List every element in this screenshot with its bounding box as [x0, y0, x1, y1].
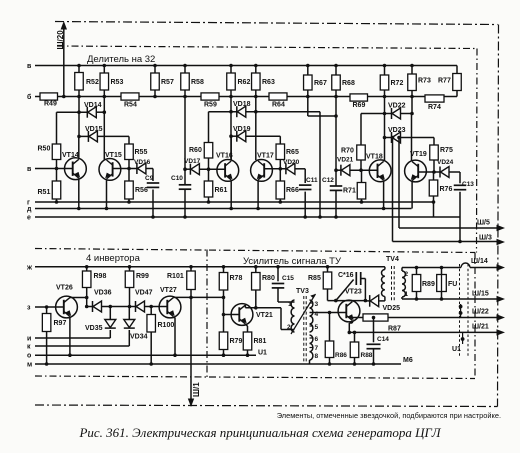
svg-text:VD16: VD16 [134, 159, 151, 166]
svg-text:R72: R72 [391, 80, 404, 87]
capacitor C13 [449, 171, 460, 173]
svg-text:Ш/5: Ш/5 [477, 220, 490, 227]
transistor VT14 [65, 158, 87, 180]
svg-text:о: о [27, 353, 31, 360]
bus line g [35, 201, 434, 203]
diode VD17 [189, 164, 191, 175]
capacitor C16 diagonal wire [336, 280, 354, 301]
svg-text:к: к [27, 344, 31, 351]
svg-text:VT26: VT26 [56, 285, 73, 292]
bus line z [35, 306, 64, 308]
svg-text:ж: ж [26, 264, 33, 271]
svg-text:R73: R73 [418, 78, 431, 85]
TV3 pin8 wire [309, 360, 311, 364]
svg-text:VT27: VT27 [160, 287, 177, 294]
wire R62 column [230, 97, 232, 161]
svg-text:VD47: VD47 [135, 290, 153, 297]
VT15 emitter wire [106, 180, 108, 208]
svg-text:R66: R66 [286, 187, 299, 194]
svg-text:TV4: TV4 [386, 256, 399, 263]
svg-text:VT19: VT19 [410, 151, 427, 158]
wire R55 to VT15 base [128, 160, 130, 169]
resistor R77 [456, 66, 458, 74]
diode VD18 row wire [209, 111, 237, 113]
svg-text:R58: R58 [191, 79, 204, 86]
sh20 riser wire [63, 29, 65, 97]
svg-text:в: в [27, 63, 32, 70]
svg-text:4 инвертора: 4 инвертора [86, 253, 141, 264]
svg-text:R67: R67 [314, 80, 327, 87]
long wire to e-bus [319, 112, 321, 217]
svg-text:R62: R62 [238, 79, 251, 86]
svg-text:в: в [27, 166, 32, 173]
svg-text:R88: R88 [361, 352, 373, 359]
collector node wire to TV3 [245, 307, 281, 309]
VT17 emitter wire [257, 181, 259, 208]
svg-text:7: 7 [315, 345, 319, 352]
svg-text:2: 2 [405, 271, 409, 278]
resistor R76 [433, 172, 435, 180]
svg-text:8: 8 [315, 353, 319, 360]
wire R70 to base row [360, 160, 362, 170]
svg-text:R52: R52 [86, 79, 99, 86]
svg-text:R85: R85 [308, 275, 321, 282]
line Sh/15 [402, 298, 497, 300]
svg-text:VD18: VD18 [233, 101, 251, 108]
TV3 tuning arrow [291, 294, 316, 334]
resistor R53 [103, 66, 105, 74]
capacitor C10 [179, 184, 192, 186]
svg-text:VD19: VD19 [233, 126, 251, 133]
svg-text:R101: R101 [167, 273, 184, 280]
transistor VT21 [231, 304, 253, 326]
resistor R100 [150, 307, 152, 315]
resistor R68 [335, 66, 337, 76]
TV3 pin numbers [287, 301, 319, 360]
svg-text:VD20: VD20 [283, 159, 300, 166]
svg-text:VT16: VT16 [216, 153, 233, 160]
diode VD19 row wire [231, 135, 237, 137]
wire R50 to base row [56, 160, 58, 169]
diode VD22 [391, 108, 393, 119]
svg-text:R100: R100 [158, 322, 175, 329]
svg-text:Ш/20: Ш/20 [56, 30, 65, 50]
arrow Sh/5 [497, 225, 506, 231]
svg-text:д: д [27, 206, 32, 213]
transistor VT19 [405, 160, 427, 182]
svg-text:R49: R49 [44, 101, 57, 108]
C15 to TV3 pin1 wire [278, 301, 295, 303]
wire VD47 to VT27 base [145, 306, 168, 308]
resistor R66 [279, 169, 281, 181]
bus line k [35, 345, 129, 347]
svg-text:R68: R68 [342, 80, 355, 87]
VT21 emitter wire [245, 324, 247, 326]
svg-text:R89: R89 [422, 281, 435, 288]
resistor R55 [125, 144, 134, 160]
svg-text:R97: R97 [54, 320, 67, 327]
transistor VT26 [56, 296, 78, 318]
svg-text:Рис. 361. Электрическая принци: Рис. 361. Электрическая принципиальная с… [78, 425, 441, 440]
diode VD35 [109, 307, 111, 320]
diode VD22 row wire [361, 113, 392, 115]
VT21 base junction [222, 313, 226, 317]
wire R52 column [78, 97, 80, 137]
svg-text:U1: U1 [258, 350, 267, 357]
wire R53 column [103, 97, 105, 161]
wire R75 to base row [433, 160, 435, 172]
divider-by-32 dashed box [35, 46, 477, 253]
bus line v (top supply) [35, 65, 457, 67]
lower boxes dashed borders [35, 250, 475, 379]
wire collector row to amplifier [191, 296, 224, 298]
VT16 emitter wire [230, 181, 232, 208]
transistor VT27 [159, 296, 181, 318]
VT26 collector wire [69, 296, 71, 298]
svg-text:C12: C12 [322, 177, 334, 184]
svg-text:3: 3 [315, 301, 319, 308]
svg-text:R81: R81 [254, 338, 267, 345]
resistor R54 [121, 93, 139, 100]
bus line m [35, 363, 401, 365]
bus line b [35, 96, 40, 98]
svg-text:R69: R69 [353, 102, 366, 109]
VT23 collector stub [351, 300, 353, 303]
wire R65 to base row [279, 160, 281, 169]
wire to Sh/3 [434, 216, 461, 218]
diode VD18 [236, 106, 238, 117]
svg-text:VD25: VD25 [383, 305, 401, 312]
Sh/1 drop wire [190, 297, 192, 399]
svg-text:R54: R54 [124, 102, 137, 109]
transistor VT23 [338, 300, 360, 322]
capacitor C11 [295, 168, 305, 170]
svg-text:VT14: VT14 [62, 152, 79, 159]
svg-text:VT15: VT15 [105, 152, 122, 159]
resistor R56 [128, 169, 130, 182]
outer dash-dot frame [35, 22, 499, 407]
diode VD16 [136, 163, 138, 174]
svg-text:1: 1 [288, 301, 292, 308]
arrow Sh/1 [188, 399, 194, 408]
svg-text:C10: C10 [171, 175, 183, 182]
svg-text:Ш/15: Ш/15 [472, 291, 489, 298]
svg-text:R61: R61 [215, 187, 228, 194]
svg-text:R71: R71 [343, 188, 356, 195]
resistor R101 [190, 267, 192, 271]
VT19 emitter wire [411, 182, 413, 209]
capacitor C15 [277, 267, 279, 282]
resistor R49 [40, 93, 58, 100]
resistor R63 [255, 66, 257, 74]
resistor R87 [349, 317, 363, 319]
svg-text:VD14: VD14 [84, 102, 102, 109]
resistor R89 [416, 268, 418, 275]
svg-text:VT18: VT18 [366, 154, 383, 161]
svg-text:VD15: VD15 [85, 126, 103, 133]
wire R63 column [255, 97, 257, 161]
svg-text:2: 2 [287, 324, 291, 331]
resistor R99 [129, 267, 131, 271]
transformer TV3 [291, 296, 313, 362]
svg-text:R74: R74 [428, 104, 441, 111]
connector strip dashed lines [460, 264, 469, 357]
VT14 collector wire [78, 136, 80, 157]
bus line e [35, 216, 434, 218]
resistor R61 [208, 169, 210, 181]
svg-text:R63: R63 [262, 79, 275, 86]
bus line o [35, 354, 256, 356]
svg-text:и: и [27, 336, 31, 343]
svg-text:Элементы, отмеченные звездочко: Элементы, отмеченные звездочкой, подбира… [277, 411, 501, 420]
svg-text:C11: C11 [306, 177, 318, 184]
VT14 emitter wire [78, 180, 80, 209]
svg-text:е: е [27, 215, 31, 222]
diode VD34 [128, 307, 130, 320]
svg-text:Ш/22: Ш/22 [472, 309, 489, 316]
resistor R74 [425, 95, 444, 102]
diode VD17 row wire [185, 168, 190, 170]
arrow Sh/15 [497, 296, 506, 302]
svg-text:5: 5 [315, 324, 319, 331]
VT26 emitter wire [69, 318, 71, 356]
VT23 emitter wire [351, 321, 353, 323]
svg-text:TV3: TV3 [296, 288, 309, 295]
svg-text:м: м [27, 362, 32, 369]
svg-text:R76: R76 [440, 186, 453, 193]
line Sh/22 [388, 317, 497, 319]
svg-text:R70: R70 [341, 148, 354, 155]
svg-text:R64: R64 [272, 102, 285, 109]
resistor R72 [384, 66, 386, 76]
svg-text:R56: R56 [135, 187, 148, 194]
svg-text:Ш/1: Ш/1 [192, 382, 201, 397]
TV3 pin stubs [310, 302, 314, 304]
wire R58/C10 column [184, 97, 186, 185]
VT27 emitter wire [173, 317, 175, 319]
svg-text:R55: R55 [135, 149, 148, 156]
svg-text:з: з [27, 305, 31, 312]
svg-text:VD23: VD23 [388, 127, 406, 134]
transistor VT17 [251, 160, 273, 182]
diode VD36 [92, 301, 94, 312]
svg-text:M6: M6 [403, 357, 413, 364]
svg-text:VD34: VD34 [130, 334, 148, 341]
arrow Sh/20 [61, 21, 67, 30]
diode VD25 [365, 300, 369, 302]
svg-text:R53: R53 [111, 79, 124, 86]
resistor R79 [219, 332, 228, 350]
svg-text:Ш/3: Ш/3 [479, 235, 492, 242]
arrow Sh/3 [497, 239, 506, 245]
diode VD21 row wire [336, 169, 341, 171]
svg-text:C14: C14 [377, 336, 389, 343]
svg-text:1: 1 [405, 291, 409, 298]
resistor R80 [255, 267, 257, 273]
svg-text:6: 6 [315, 336, 319, 343]
svg-text:C13: C13 [462, 181, 474, 188]
svg-text:C9: C9 [145, 175, 154, 182]
line Sh/14 [402, 267, 461, 269]
diode VD23 [391, 132, 393, 143]
svg-text:Делитель на 32: Делитель на 32 [87, 54, 155, 65]
bus line v2 (base row left) [35, 168, 73, 170]
arrow Sh/22 [497, 314, 506, 320]
resistor R75 [430, 145, 439, 160]
diode VD15 [87, 131, 89, 142]
resistor R88 [354, 332, 356, 342]
transformer TV4 primary [384, 267, 386, 270]
VT16 collector wire [230, 136, 232, 159]
svg-text:R59: R59 [204, 102, 217, 109]
resistor R64 [269, 93, 287, 100]
svg-text:C15: C15 [282, 275, 294, 282]
fuse FU [441, 268, 443, 300]
bus line d [35, 208, 412, 210]
resistor R97 [46, 307, 48, 314]
VT21 base wire [224, 314, 240, 316]
capacitor C12 [330, 185, 343, 187]
left terminal letters [26, 63, 33, 369]
arrow Sh/14 [497, 264, 506, 270]
svg-text:VD24: VD24 [437, 159, 454, 166]
svg-text:FU: FU [448, 281, 457, 288]
diode VD20 [285, 163, 287, 174]
resistor R65 [276, 144, 285, 160]
resistor R69 [350, 94, 368, 101]
diode VD19 [236, 131, 238, 142]
connector contact U1 [462, 332, 464, 344]
svg-text:R99: R99 [136, 273, 149, 280]
transformer TV4 secondary [402, 271, 405, 297]
transistor VT15 [99, 159, 121, 181]
svg-text:R65: R65 [286, 149, 299, 156]
svg-text:Ш/21: Ш/21 [472, 324, 489, 331]
VT21 collector wire [244, 305, 246, 308]
resistor R67 [307, 66, 309, 76]
svg-text:R78: R78 [230, 275, 243, 282]
svg-text:VD35: VD35 [85, 325, 103, 332]
wire VD36 to VD47 [110, 306, 135, 308]
resistor R98 [86, 267, 88, 271]
wire to Sh/5 [398, 138, 400, 229]
diode VD24 [439, 167, 441, 178]
svg-text:R80: R80 [262, 275, 275, 282]
inter-stage wire [307, 97, 309, 117]
svg-text:VD21: VD21 [337, 157, 354, 164]
resistor R71 [361, 170, 363, 182]
svg-text:U1: U1 [452, 346, 461, 353]
diode VD47 [135, 301, 137, 312]
diode VD36 row wire [87, 306, 93, 308]
VT18 emitter wire [383, 182, 385, 209]
resistor R70 [357, 145, 366, 160]
svg-text:C*16: C*16 [338, 272, 354, 279]
svg-text:R51: R51 [38, 189, 51, 196]
resistor R50 [52, 144, 61, 160]
bus line zh (lower supply) [35, 266, 385, 268]
VT27 collector wire [173, 296, 191, 298]
resistor R86 [329, 313, 331, 342]
svg-text:R50: R50 [38, 146, 51, 153]
resistor R81 [243, 332, 252, 350]
diode VD21 [340, 165, 342, 176]
capacitor C14 [373, 318, 375, 343]
resistor R78 [223, 267, 225, 273]
svg-text:R79: R79 [230, 338, 243, 345]
svg-text:VD17: VD17 [184, 158, 201, 165]
svg-text:R75: R75 [440, 147, 453, 154]
diode VD14 [86, 107, 88, 118]
svg-text:б: б [27, 93, 32, 101]
svg-text:VD22: VD22 [388, 103, 406, 110]
capacitor C9 [146, 168, 153, 170]
wire R60 to base row [208, 158, 210, 169]
svg-text:R87: R87 [388, 326, 401, 333]
diode VD23 row wire [385, 137, 392, 139]
resistor R85 [327, 267, 329, 272]
resistor R52 [78, 66, 80, 73]
svg-text:Ш/14: Ш/14 [471, 258, 488, 265]
svg-text:VD36: VD36 [94, 290, 112, 297]
resistor R62 [230, 66, 232, 74]
wire R72 column [384, 97, 386, 161]
resistor R58 [184, 66, 186, 74]
svg-text:R60: R60 [189, 147, 202, 154]
svg-text:R86: R86 [335, 352, 347, 359]
wire R73 column [411, 97, 413, 114]
diode VD15 row wire [79, 135, 88, 137]
svg-text:R57: R57 [161, 79, 174, 86]
transistor VT16 [217, 160, 239, 182]
connector contact dots [460, 304, 462, 318]
TV3 tap 4 to VT23 base wire [310, 312, 346, 314]
resistor R57 [154, 66, 156, 74]
line Sh/21 [349, 331, 497, 333]
wire R68/C12 column [335, 97, 337, 187]
resistor R51 [56, 169, 58, 182]
transistor VT18 [369, 160, 391, 182]
VT23 collector node wire [328, 300, 366, 302]
capacitor C16 [355, 272, 357, 285]
resistor R60 [204, 143, 213, 159]
svg-text:VT23: VT23 [345, 289, 362, 296]
resistor R59 [201, 93, 219, 100]
transformer TV4 core [391, 266, 393, 301]
bus line i [35, 337, 110, 339]
diode VD14 row wire [57, 111, 88, 113]
svg-text:R77: R77 [438, 78, 451, 85]
svg-text:R98: R98 [94, 273, 107, 280]
resistor R73 [411, 66, 413, 75]
arrow Sh/21 [497, 329, 506, 335]
svg-text:VT21: VT21 [256, 312, 273, 319]
svg-text:VT17: VT17 [257, 153, 274, 160]
